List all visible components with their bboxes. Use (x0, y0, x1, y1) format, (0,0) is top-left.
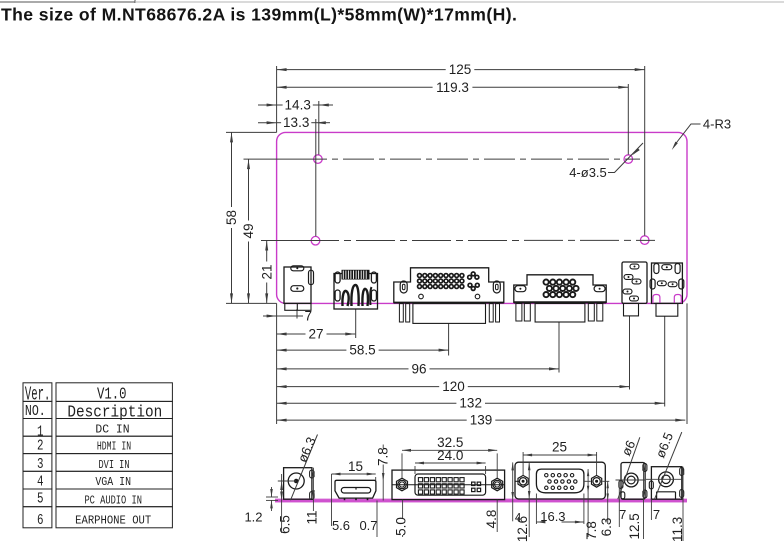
svg-text:HDMI IN: HDMI IN (97, 441, 131, 454)
svg-text:13.3: 13.3 (283, 115, 309, 130)
svg-text:6.5: 6.5 (277, 515, 292, 534)
svg-text:7.8: 7.8 (584, 521, 599, 540)
svg-text:Ver.: Ver. (25, 384, 51, 406)
svg-text:139: 139 (470, 413, 493, 428)
svg-text:96: 96 (411, 361, 426, 376)
svg-text:6: 6 (37, 512, 44, 529)
svg-text:14.3: 14.3 (285, 98, 311, 113)
svg-text:1.2: 1.2 (244, 510, 262, 525)
svg-text:2: 2 (37, 438, 44, 455)
svg-text:EARPHONE OUT: EARPHONE OUT (75, 515, 151, 528)
svg-text:25: 25 (552, 440, 567, 455)
svg-text:DVI IN: DVI IN (99, 459, 130, 472)
svg-text:11: 11 (304, 510, 319, 524)
svg-text:132: 132 (459, 396, 482, 411)
svg-text:The size of M.NT68676.2A is 13: The size of M.NT68676.2A is 139mm(L)*58m… (1, 5, 517, 25)
svg-text:11.3: 11.3 (670, 517, 685, 542)
svg-text:12.6: 12.6 (515, 516, 530, 542)
svg-text:NO.: NO. (25, 403, 46, 420)
svg-text:PC AUDIO IN: PC AUDIO IN (84, 494, 142, 507)
svg-text:4-R3: 4-R3 (703, 117, 731, 132)
svg-text:24.0: 24.0 (437, 448, 463, 463)
svg-text:21: 21 (259, 264, 274, 279)
svg-text:4: 4 (37, 473, 44, 490)
svg-text:5: 5 (37, 491, 44, 508)
svg-text:16.3: 16.3 (540, 509, 565, 524)
svg-text:119.3: 119.3 (436, 80, 469, 95)
svg-text:4-ø3.5: 4-ø3.5 (569, 165, 607, 180)
svg-text:27: 27 (308, 327, 323, 342)
svg-text:7: 7 (619, 507, 626, 522)
svg-text:12.5: 12.5 (627, 513, 642, 539)
svg-text:58: 58 (224, 210, 239, 225)
svg-text:125: 125 (449, 62, 472, 77)
svg-text:VGA IN: VGA IN (95, 476, 131, 489)
svg-text:4.8: 4.8 (484, 510, 499, 529)
svg-text:49: 49 (241, 223, 256, 238)
svg-text:58.5: 58.5 (349, 343, 375, 358)
svg-text:7: 7 (653, 507, 660, 522)
svg-text:6.3: 6.3 (599, 518, 614, 537)
svg-text:15: 15 (348, 459, 363, 474)
svg-text:V1.0: V1.0 (97, 386, 127, 405)
svg-text:0.7: 0.7 (359, 518, 377, 533)
svg-text:5.0: 5.0 (393, 517, 408, 536)
svg-text:3: 3 (37, 456, 44, 473)
svg-text:Description: Description (67, 404, 162, 423)
svg-text:120: 120 (442, 379, 465, 394)
svg-text:7.8: 7.8 (375, 447, 390, 466)
svg-text:5.6: 5.6 (332, 518, 350, 533)
svg-text:DC IN: DC IN (95, 423, 129, 436)
